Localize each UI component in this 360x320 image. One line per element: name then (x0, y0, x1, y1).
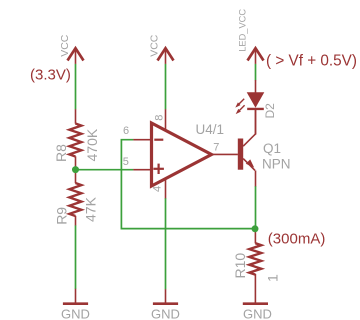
svg-text:6: 6 (123, 125, 129, 137)
svg-text:( > Vf + 0.5V): ( > Vf + 0.5V) (266, 53, 357, 70)
svg-text:(3.3V): (3.3V) (30, 67, 71, 84)
svg-text:U4/1: U4/1 (196, 122, 225, 137)
svg-text:7: 7 (213, 142, 219, 154)
svg-text:GND: GND (151, 306, 180, 320)
svg-text:4: 4 (152, 186, 164, 192)
svg-text:Q1: Q1 (263, 141, 281, 156)
svg-text:VCC: VCC (59, 34, 71, 57)
svg-text:VCC: VCC (149, 34, 161, 57)
svg-text:R8: R8 (53, 144, 69, 162)
svg-text:470K: 470K (84, 128, 100, 161)
svg-text:D2: D2 (263, 103, 277, 119)
svg-text:8: 8 (154, 115, 166, 121)
svg-text:GND: GND (243, 306, 272, 320)
svg-text:(300mA): (300mA) (268, 231, 326, 248)
svg-text:LED_VCC: LED_VCC (238, 9, 248, 52)
svg-text:R10: R10 (232, 253, 248, 279)
svg-text:1: 1 (265, 274, 281, 282)
svg-text:R9: R9 (53, 207, 69, 225)
svg-text:47K: 47K (83, 196, 99, 222)
svg-text:GND: GND (61, 306, 90, 320)
svg-text:5: 5 (123, 156, 129, 168)
svg-text:NPN: NPN (262, 156, 291, 171)
